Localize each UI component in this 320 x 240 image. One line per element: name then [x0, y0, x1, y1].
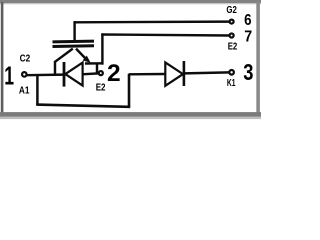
svg-text:1: 1: [4, 60, 14, 90]
svg-text:G2: G2: [226, 5, 237, 16]
svg-text:2: 2: [107, 60, 121, 87]
svg-text:A1: A1: [19, 86, 30, 97]
svg-text:6: 6: [244, 12, 251, 29]
svg-text:E2: E2: [96, 83, 106, 94]
svg-text:K1: K1: [227, 78, 236, 89]
svg-text:3: 3: [243, 59, 253, 85]
svg-text:7: 7: [244, 29, 252, 46]
svg-text:E2: E2: [228, 42, 238, 53]
svg-text:C2: C2: [20, 52, 31, 64]
